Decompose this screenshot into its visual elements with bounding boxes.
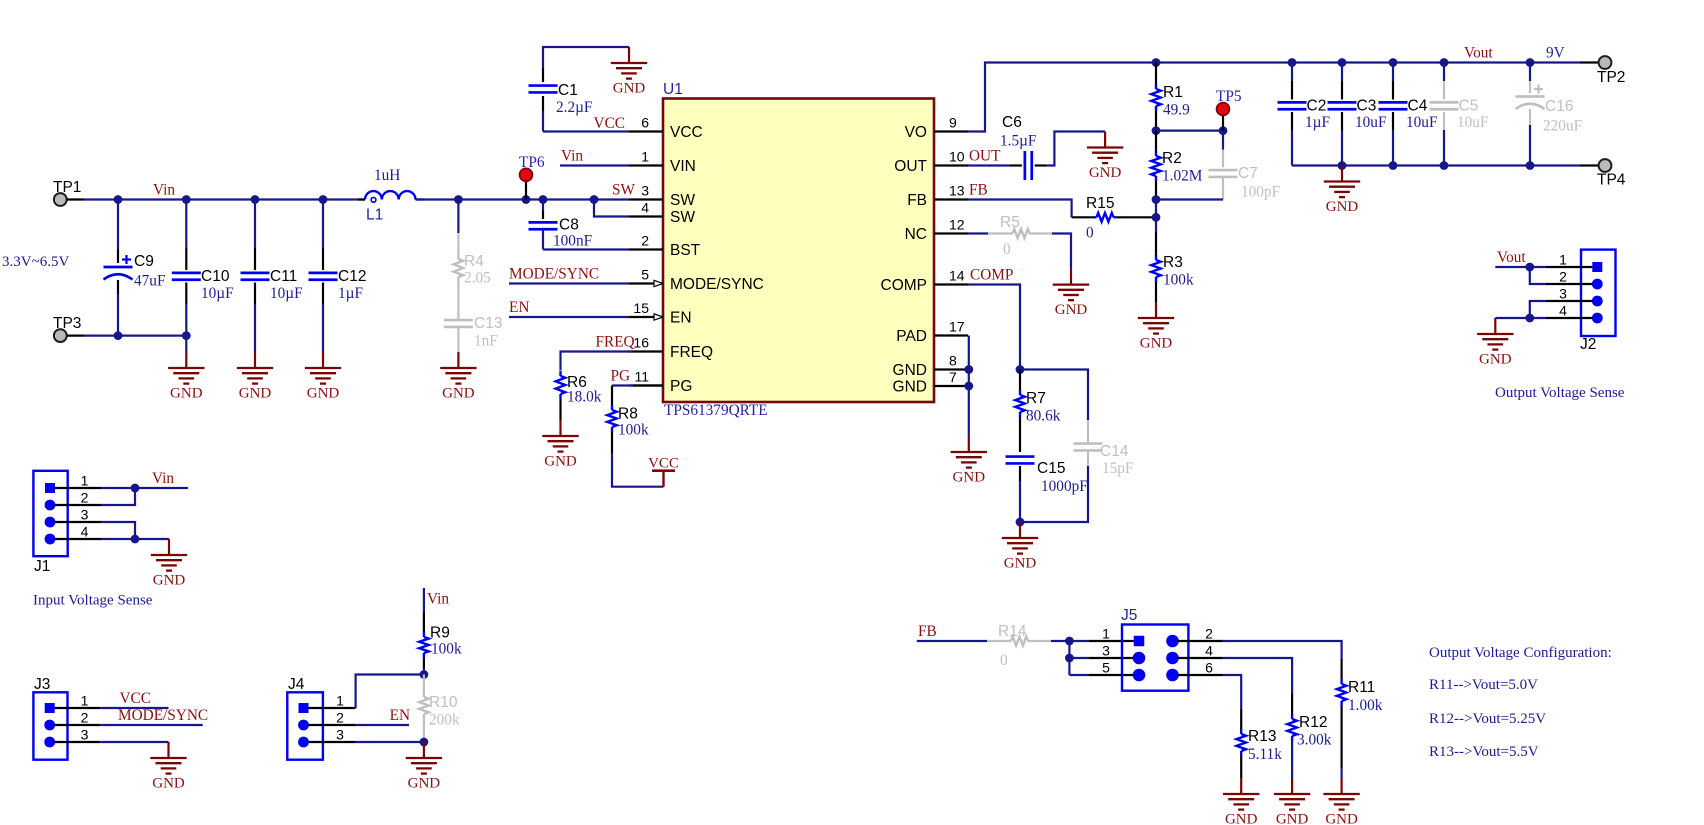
- ground below R5: [1070, 269, 1072, 285]
- svg-text:1uH: 1uH: [374, 167, 400, 184]
- wire J2 pin4 to ground: [1495, 317, 1546, 319]
- svg-text:2: 2: [81, 489, 89, 505]
- junction C10/Vin: [182, 195, 191, 204]
- svg-text:100k: 100k: [431, 641, 462, 658]
- resistor R7 80.6k: [1015, 370, 1061, 453]
- capacitor C9 47uF: [104, 200, 166, 336]
- junction C9/Vin: [114, 195, 123, 204]
- wire C14 branch: [1020, 370, 1088, 523]
- svg-text:Vin: Vin: [153, 182, 175, 199]
- svg-text:5: 5: [641, 267, 649, 283]
- svg-text:TP3: TP3: [53, 315, 81, 332]
- svg-text:R4: R4: [464, 253, 484, 270]
- resistor R10 200k (DNP): [419, 675, 460, 743]
- svg-text:GND: GND: [1055, 302, 1088, 318]
- svg-text:4: 4: [1205, 642, 1213, 658]
- resistor R8 100k: [607, 405, 649, 453]
- junction VO rail / R1: [1152, 58, 1161, 67]
- junction C11/Vin: [251, 195, 260, 204]
- wire FB to R14: [917, 640, 987, 642]
- J3 pin stubs: [55, 708, 100, 742]
- junction C8/SW: [539, 195, 548, 204]
- svg-text:10uF: 10uF: [1355, 114, 1386, 131]
- svg-text:1: 1: [1559, 251, 1567, 267]
- svg-text:C10: C10: [201, 268, 230, 285]
- junction C2/output rail: [1288, 58, 1297, 67]
- junction J1 pins 1-2: [131, 484, 140, 493]
- svg-text:100nF: 100nF: [553, 233, 592, 250]
- ground at J1: [168, 539, 170, 555]
- capacitor C12 1uF: [309, 200, 367, 353]
- svg-text:1µF: 1µF: [1305, 114, 1330, 131]
- svg-text:6: 6: [641, 115, 649, 131]
- wire TP1 stub: [67, 198, 84, 200]
- svg-text:NC: NC: [905, 226, 927, 243]
- ground above right of C1: [628, 47, 630, 63]
- svg-text:18.0k: 18.0k: [567, 389, 602, 406]
- junction GND pin 8: [964, 365, 973, 374]
- wire R14 to J5: [1051, 640, 1069, 642]
- svg-text:MODE/SYNC: MODE/SYNC: [118, 707, 208, 724]
- svg-text:1: 1: [336, 692, 344, 708]
- svg-text:2: 2: [336, 709, 344, 725]
- op-amp U1 TPS61379QRTE body: [663, 81, 934, 419]
- wire TP2 stub: [1580, 61, 1599, 63]
- connector J3: [33, 676, 67, 760]
- svg-text:Vout: Vout: [1497, 249, 1526, 266]
- junction R1/R2/TP5: [1152, 126, 1161, 135]
- svg-text:FB: FB: [918, 623, 937, 640]
- wire EN net to pin 15: [509, 316, 629, 318]
- connector J5: [1121, 607, 1188, 691]
- wire output bottom rail: [1292, 164, 1580, 166]
- svg-text:1.00k: 1.00k: [1348, 697, 1383, 714]
- test point TP4: [1597, 159, 1626, 188]
- svg-text:J5: J5: [1121, 607, 1137, 624]
- junction J2 pins 3-4: [1525, 314, 1534, 323]
- wire J1 pin1 Vin: [101, 487, 188, 489]
- node Output Voltage Configuration notes: [1429, 645, 1612, 760]
- svg-text:VCC: VCC: [594, 115, 625, 132]
- svg-text:GND: GND: [1004, 556, 1037, 572]
- svg-text:49.9: 49.9: [1163, 102, 1190, 119]
- test point TP2: [1597, 56, 1625, 86]
- svg-text:FREQ: FREQ: [596, 334, 635, 351]
- wire FREQ net to pin 16: [561, 352, 633, 371]
- wire J1 pin3 down: [101, 522, 135, 539]
- svg-text:GND: GND: [1276, 812, 1309, 825]
- ground below R6: [559, 420, 561, 436]
- svg-text:8: 8: [949, 353, 957, 369]
- wire PAD/GND pins to ground: [968, 336, 970, 437]
- svg-text:J4: J4: [288, 676, 305, 693]
- wire J4 pin1 to R9/R10 node: [356, 675, 424, 709]
- svg-text:7: 7: [949, 369, 957, 385]
- svg-text:R11-->Vout=5.0V: R11-->Vout=5.0V: [1429, 677, 1538, 693]
- svg-text:R15: R15: [1086, 195, 1114, 212]
- wire J5 pin3 lead: [1069, 657, 1133, 659]
- wire R8 to VCC symbol: [612, 453, 664, 487]
- J2 pin numbers: [1559, 251, 1567, 318]
- wire J5 pin6 to R13: [1178, 675, 1242, 729]
- svg-text:0: 0: [1086, 225, 1094, 242]
- ground below R12: [1291, 778, 1293, 794]
- ground at J2: [1494, 318, 1496, 334]
- svg-text:R12: R12: [1299, 714, 1327, 731]
- capacitor C16 220uF (DNP): [1516, 63, 1583, 166]
- inductor L1 1uH: [358, 167, 424, 224]
- wire J2 pin2 up: [1530, 267, 1546, 284]
- svg-text:16: 16: [633, 335, 649, 351]
- svg-text:VO: VO: [905, 124, 927, 141]
- wire VCC net to pin 6: [543, 130, 629, 132]
- wire bottom input rail: [84, 335, 186, 337]
- svg-text:4: 4: [1559, 302, 1567, 318]
- junction COMP/R7/C14: [1016, 365, 1025, 374]
- svg-text:15pF: 15pF: [1102, 460, 1133, 477]
- svg-text:SW: SW: [670, 209, 695, 226]
- svg-text:100pF: 100pF: [1241, 184, 1280, 201]
- wire COMP net from pin 14: [968, 285, 1020, 370]
- svg-text:GND: GND: [170, 386, 203, 402]
- wire J1 pin4 to ground: [101, 538, 169, 540]
- svg-text:EN: EN: [390, 707, 410, 724]
- svg-text:R7: R7: [1026, 390, 1046, 407]
- ground at J3: [167, 742, 169, 758]
- svg-text:3: 3: [1559, 285, 1567, 301]
- svg-text:C8: C8: [559, 217, 579, 234]
- resistor R13 5.11k: [1236, 728, 1282, 778]
- svg-text:C12: C12: [338, 268, 366, 285]
- svg-text:3: 3: [336, 726, 344, 742]
- junction C3/output rail: [1338, 58, 1347, 67]
- junction C4/bottom rail: [1389, 161, 1398, 170]
- test point TP5: [1216, 88, 1242, 131]
- svg-text:2: 2: [641, 233, 649, 249]
- U1 input arrow pin 5: [654, 280, 663, 286]
- svg-text:GND: GND: [613, 81, 646, 97]
- svg-text:TP2: TP2: [1597, 69, 1625, 86]
- svg-text:4: 4: [81, 523, 89, 539]
- wire FB net from pin 13: [968, 200, 1072, 218]
- junction R10/J4 pin3: [420, 738, 429, 747]
- wire R2 bottom node: [1156, 198, 1223, 200]
- svg-text:C11: C11: [270, 268, 297, 285]
- svg-text:GND: GND: [1325, 812, 1358, 825]
- capacitor C14 15pF (DNP): [1074, 443, 1134, 477]
- svg-text:0: 0: [1003, 241, 1011, 258]
- svg-text:R13: R13: [1248, 728, 1276, 745]
- svg-text:9: 9: [949, 115, 957, 131]
- capacitor C8 100nF: [529, 200, 593, 250]
- U1 right pin stubs: [934, 132, 968, 387]
- U1 input arrow pin 15: [654, 314, 663, 320]
- svg-text:GND: GND: [408, 776, 441, 792]
- wire J4 pin2 EN: [356, 724, 409, 726]
- wire J2 pin1 Vout: [1495, 266, 1546, 268]
- svg-text:1: 1: [81, 472, 89, 488]
- junction J5 pin1 node: [1065, 637, 1074, 646]
- svg-text:GND: GND: [1225, 812, 1258, 825]
- test point TP6: [519, 154, 545, 200]
- svg-text:220uF: 220uF: [1543, 118, 1582, 135]
- svg-text:9V: 9V: [1546, 45, 1565, 62]
- svg-text:200k: 200k: [429, 712, 460, 729]
- svg-text:C15: C15: [1037, 460, 1065, 477]
- svg-text:C2: C2: [1307, 98, 1327, 115]
- wire J5 pin4 to R12: [1178, 658, 1292, 714]
- capacitor C7 100pF (DNP): [1209, 131, 1281, 201]
- wire R1-R2 node to TP5: [1156, 130, 1223, 132]
- svg-text:6: 6: [1205, 659, 1213, 675]
- svg-text:3: 3: [1102, 642, 1110, 658]
- capacitor C2 1uF: [1278, 63, 1330, 166]
- svg-text:R12-->Vout=5.25V: R12-->Vout=5.25V: [1429, 711, 1546, 727]
- svg-text:Vin: Vin: [152, 470, 174, 487]
- svg-text:TP1: TP1: [53, 179, 81, 196]
- svg-text:17: 17: [949, 319, 965, 335]
- wire NC net from pin 12: [968, 232, 988, 234]
- ground below C3: [1341, 166, 1343, 182]
- test point TP1: [53, 179, 81, 206]
- wire SW rail after L1: [416, 198, 629, 200]
- resistor R15 0: [1086, 195, 1116, 242]
- svg-text:GND: GND: [1326, 199, 1359, 215]
- wire J3 pin1 VCC: [100, 707, 168, 709]
- svg-text:EN: EN: [670, 310, 692, 327]
- svg-text:R14: R14: [998, 623, 1027, 640]
- wire R15 to feedback node: [1116, 216, 1156, 218]
- svg-text:10µF: 10µF: [201, 285, 234, 302]
- svg-text:VIN: VIN: [670, 158, 696, 175]
- svg-text:GND: GND: [239, 386, 272, 402]
- svg-text:2.05: 2.05: [464, 270, 491, 287]
- ground at J4: [423, 742, 425, 758]
- svg-text:COMP: COMP: [881, 277, 928, 294]
- ground below C11: [254, 352, 256, 368]
- svg-text:C7: C7: [1238, 165, 1258, 182]
- wire BST net to pin 2: [543, 248, 629, 250]
- capacitor C13 1nF (DNP): [444, 315, 503, 352]
- ground below C12: [322, 352, 324, 368]
- svg-text:GND: GND: [153, 573, 186, 589]
- wire SW pin4 branch: [594, 200, 629, 217]
- junction J2 pins 1-2: [1525, 263, 1534, 272]
- junction SW pin4 branch: [590, 195, 599, 204]
- svg-text:R8: R8: [618, 406, 638, 423]
- ground below C15: [1019, 522, 1021, 538]
- svg-text:10: 10: [949, 149, 965, 165]
- svg-text:14: 14: [949, 268, 965, 284]
- resistor R2 1.02M: [1151, 131, 1203, 200]
- svg-text:12: 12: [949, 217, 965, 233]
- svg-text:SW: SW: [612, 182, 636, 199]
- junction R9/R10/J4: [420, 670, 429, 679]
- junction C15/C14 bottom: [1016, 518, 1025, 527]
- junction FB/R15 node: [1152, 213, 1161, 222]
- capacitor C4 10uF: [1379, 63, 1438, 166]
- wire R2 node to R3: [1155, 200, 1157, 218]
- svg-text:GND: GND: [1140, 336, 1173, 352]
- svg-text:1µF: 1µF: [338, 285, 363, 302]
- J5 pin numbers: [1102, 625, 1213, 675]
- capacitor C11 10uF: [241, 200, 303, 353]
- resistor R3 100k: [1151, 217, 1194, 302]
- svg-text:GND: GND: [152, 776, 185, 792]
- junction C9/bottom rail: [114, 331, 123, 340]
- svg-text:TPS61379QRTE: TPS61379QRTE: [664, 402, 768, 419]
- svg-text:2.2µF: 2.2µF: [556, 99, 592, 116]
- svg-text:J2: J2: [1580, 336, 1596, 353]
- svg-text:U1: U1: [663, 81, 683, 98]
- power VCC symbol: [652, 469, 675, 472]
- svg-text:OUT: OUT: [894, 158, 927, 175]
- svg-text:4: 4: [641, 200, 649, 216]
- svg-text:1.5µF: 1.5µF: [1000, 133, 1036, 150]
- svg-text:GND: GND: [442, 386, 475, 402]
- svg-text:TP5: TP5: [1216, 88, 1242, 105]
- svg-text:FB: FB: [907, 192, 927, 209]
- svg-text:MODE/SYNC: MODE/SYNC: [670, 276, 764, 293]
- wire J5 pin2 to R11: [1178, 641, 1342, 679]
- U1 left pin stubs: [629, 132, 663, 386]
- wire J5 pin5 lead: [1069, 674, 1133, 676]
- svg-text:GND: GND: [1479, 352, 1512, 368]
- resistor R14 0 (DNP): [987, 623, 1051, 669]
- test point TP3: [53, 315, 81, 342]
- resistor R1 49.9: [1151, 63, 1190, 131]
- junction TP6/SW: [522, 195, 531, 204]
- svg-text:PG: PG: [611, 368, 631, 385]
- svg-text:MODE/SYNC: MODE/SYNC: [509, 266, 599, 283]
- capacitor C15 1000pF: [1006, 457, 1088, 522]
- svg-text:L1: L1: [366, 207, 383, 224]
- svg-text:10µF: 10µF: [270, 285, 303, 302]
- junction TP5 wire: [1219, 126, 1228, 135]
- svg-text:2: 2: [81, 709, 89, 725]
- svg-text:100k: 100k: [618, 422, 649, 439]
- junction J5 pin3 node: [1065, 654, 1074, 663]
- svg-text:C9: C9: [134, 253, 154, 270]
- J2 pin stubs: [1546, 267, 1592, 318]
- svg-text:3.3V~6.5V: 3.3V~6.5V: [2, 254, 69, 270]
- svg-text:5.11k: 5.11k: [1248, 746, 1282, 763]
- svg-text:5: 5: [1102, 659, 1110, 675]
- svg-text:1.02M: 1.02M: [1162, 168, 1203, 185]
- svg-text:C14: C14: [1100, 443, 1129, 460]
- U1 left pin names and numbers: [633, 115, 763, 396]
- wire Vin rail: [84, 198, 365, 200]
- svg-text:3: 3: [81, 726, 89, 742]
- svg-text:C5: C5: [1459, 98, 1479, 115]
- svg-text:2: 2: [1559, 268, 1567, 284]
- wire J1 pin2 up: [101, 488, 135, 505]
- svg-text:COMP: COMP: [970, 267, 1013, 284]
- svg-text:GND: GND: [1089, 165, 1122, 181]
- svg-text:Vin: Vin: [561, 148, 583, 165]
- svg-text:OUT: OUT: [969, 148, 1001, 165]
- svg-text:J3: J3: [34, 676, 50, 693]
- junction C5/bottom rail: [1440, 161, 1449, 170]
- svg-text:3: 3: [81, 506, 89, 522]
- svg-text:GND: GND: [953, 470, 986, 486]
- ground below PAD pins: [968, 436, 970, 452]
- svg-text:Vout: Vout: [1464, 45, 1493, 62]
- capacitor C1 2.2uF: [529, 47, 630, 132]
- svg-text:EN: EN: [509, 299, 529, 316]
- svg-text:0: 0: [1000, 652, 1008, 669]
- svg-text:C16: C16: [1545, 98, 1573, 115]
- wire J5 pin1 lead: [1069, 640, 1133, 642]
- junction C4/output rail: [1389, 58, 1398, 67]
- svg-text:SW: SW: [670, 192, 695, 209]
- svg-text:TP6: TP6: [519, 154, 545, 171]
- svg-text:R1: R1: [1163, 84, 1183, 101]
- svg-text:3.00k: 3.00k: [1297, 732, 1332, 749]
- svg-text:11: 11: [634, 369, 649, 385]
- junction C3/bottom rail: [1338, 161, 1347, 170]
- J1 pin numbers: [81, 472, 89, 539]
- wire J3 pin3 to ground: [100, 741, 168, 743]
- wire J4 pin3 to ground node: [356, 741, 424, 743]
- svg-text:BST: BST: [670, 242, 701, 259]
- svg-text:C3: C3: [1357, 98, 1377, 115]
- ground below R3: [1155, 302, 1157, 318]
- svg-text:2: 2: [1205, 625, 1213, 641]
- ground below C10: [185, 352, 187, 368]
- ground below R11: [1340, 778, 1342, 794]
- resistor R6 18.0k: [556, 371, 602, 420]
- ground below R13: [1240, 778, 1242, 794]
- wire J2 pin3 down: [1530, 301, 1546, 318]
- J4 pin stubs: [309, 708, 356, 742]
- svg-text:GND: GND: [544, 454, 577, 470]
- junction C10/bottom rail: [182, 331, 191, 340]
- junction C16/output rail: [1526, 58, 1535, 67]
- svg-text:10uF: 10uF: [1406, 114, 1437, 131]
- wire J3 pin2 MODE/SYNC: [100, 724, 203, 726]
- resistor R11 1.00k: [1337, 679, 1383, 778]
- J1 pin stubs: [55, 488, 101, 539]
- svg-text:R11: R11: [1348, 679, 1375, 696]
- svg-text:PAD: PAD: [896, 328, 927, 345]
- J3 pin numbers: [81, 692, 89, 742]
- svg-text:FB: FB: [969, 182, 988, 199]
- junction GND pin 7: [964, 382, 973, 391]
- svg-text:15: 15: [633, 300, 649, 316]
- svg-text:1: 1: [81, 692, 89, 708]
- wire J5 left common: [1068, 641, 1070, 675]
- wire PG net to pin 11: [612, 386, 663, 406]
- ground right of C6: [1104, 132, 1106, 148]
- wire MODE/SYNC net to pin 5: [509, 282, 629, 284]
- wire TP4 stub: [1580, 164, 1599, 166]
- svg-text:Input Voltage Sense: Input Voltage Sense: [33, 593, 153, 609]
- svg-text:R2: R2: [1162, 150, 1182, 167]
- svg-text:J1: J1: [34, 558, 50, 575]
- wire TP3 stub: [67, 335, 84, 337]
- svg-text:R13-->Vout=5.5V: R13-->Vout=5.5V: [1429, 744, 1539, 760]
- junction C16/bottom rail: [1526, 161, 1535, 170]
- svg-text:1000pF: 1000pF: [1041, 478, 1088, 495]
- svg-text:R3: R3: [1163, 254, 1183, 271]
- svg-text:TP4: TP4: [1597, 172, 1626, 189]
- resistor R12 3.00k: [1287, 714, 1331, 778]
- svg-text:Vin: Vin: [427, 591, 449, 608]
- resistor R9 100k: [419, 588, 462, 675]
- wire R5 to ground: [1052, 234, 1071, 269]
- svg-text:VCC: VCC: [670, 124, 703, 141]
